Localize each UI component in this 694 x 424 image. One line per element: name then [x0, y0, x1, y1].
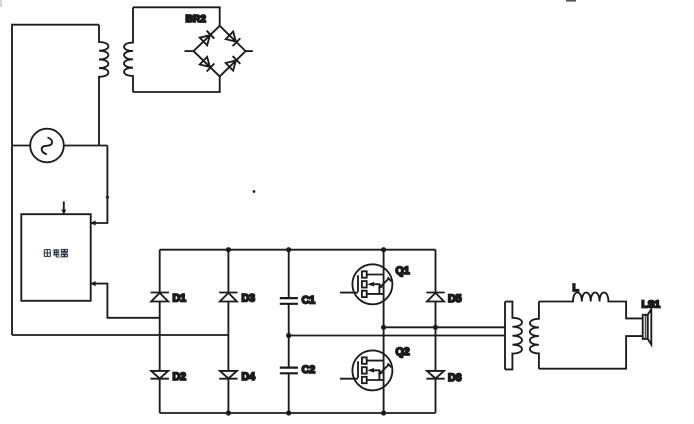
wire AC source right terminal — [64, 145, 108, 147]
relay top stub wire — [63, 201, 65, 213]
BR2 diode bottom-left — [200, 57, 215, 72]
wire output loop bottom — [539, 336, 643, 369]
transformer T1 secondary winding — [124, 7, 133, 92]
arrow into relay pin 1 — [91, 220, 96, 225]
diode D4 — [219, 371, 237, 379]
label L — [573, 283, 579, 294]
node dot rail A at Q — [381, 325, 386, 330]
branch Q1/Q2 vertical wire — [383, 250, 385, 413]
svg-text:L: L — [573, 283, 579, 294]
svg-text:LS1: LS1 — [642, 300, 661, 311]
label Q2 — [396, 346, 410, 358]
wire BR2 loop top edge — [133, 7, 220, 26]
label relay (CJK glyph approximations) — [44, 249, 67, 257]
arrow into relay pin 2 — [91, 281, 96, 286]
diode D1 — [151, 293, 169, 302]
svg-text:C1: C1 — [302, 295, 316, 307]
BR2 diode top-right — [226, 31, 241, 46]
wire rail B left segment — [12, 334, 228, 336]
node dot bottom rail at Q2 — [381, 410, 386, 415]
BR2 diode bottom-right — [226, 56, 241, 71]
relay K1 box — [21, 214, 90, 301]
label D6 — [448, 372, 462, 384]
transformer T2 primary bar and winding — [505, 302, 522, 370]
top left corner artifact — [0, 0, 2, 7]
label LS1 — [642, 300, 661, 311]
MOSFET Q1 — [340, 264, 392, 304]
label D1 — [173, 292, 187, 304]
wire ladder bottom rail — [160, 412, 436, 414]
node dot top rail at D3 — [226, 247, 231, 252]
label C2 — [302, 364, 316, 376]
label D3 — [242, 292, 256, 304]
BR2 right stub — [246, 50, 253, 52]
label Q1 — [396, 265, 410, 277]
svg-text:D3: D3 — [242, 292, 256, 304]
diode D6 — [426, 371, 444, 379]
diode D3 — [219, 293, 237, 302]
wire BR2 loop bottom edge — [133, 76, 220, 92]
wire top left loop — [12, 25, 99, 335]
label C1 — [302, 295, 316, 307]
wire rail B right segment — [289, 335, 505, 337]
label D2 — [173, 371, 187, 383]
branch C1/C2 vertical wire — [288, 250, 290, 413]
svg-text:Q2: Q2 — [396, 346, 410, 358]
branch D3/D4 vertical wire — [227, 250, 229, 413]
label D4 — [242, 371, 256, 383]
svg-text:D5: D5 — [448, 293, 462, 305]
branch D1/D2 vertical wire — [159, 250, 161, 413]
branch D5/D6 vertical wire — [435, 250, 437, 413]
AC source V1 — [30, 129, 64, 163]
diode D2 — [151, 371, 169, 379]
top edge screenshot artifact — [566, 0, 576, 2]
speaker LS1 — [643, 309, 652, 344]
svg-text:D1: D1 — [173, 292, 187, 304]
wire rail A — [384, 326, 505, 328]
label D5 — [448, 293, 462, 305]
transformer T2 secondary winding — [530, 302, 539, 369]
BR2 diode top-left — [200, 31, 215, 46]
svg-text:D4: D4 — [242, 371, 256, 383]
MOSFET Q2 — [340, 350, 392, 390]
transformer T1 primary winding — [99, 25, 108, 146]
node dot bottom rail at D4 — [226, 410, 231, 415]
svg-text:C2: C2 — [302, 364, 316, 376]
svg-text:D2: D2 — [173, 371, 187, 383]
svg-text:BR2: BR2 — [186, 14, 207, 25]
wire AC to relay vertical — [91, 146, 108, 224]
wire ladder top rail — [160, 249, 436, 251]
capacitor C2 — [280, 368, 298, 374]
node dot rail A at D5 — [433, 325, 438, 330]
stray dot artifact — [253, 190, 256, 193]
diode D5 — [426, 293, 444, 302]
bridge rectifier BR2 diamond — [194, 26, 246, 77]
wire output loop top with inductor L — [539, 293, 643, 319]
wire AC source left terminal — [12, 145, 31, 147]
arrow into relay top — [61, 210, 66, 215]
capacitor C1 — [280, 298, 298, 304]
node dot bottom rail at C2 — [286, 410, 291, 415]
label BR2 — [186, 14, 207, 25]
svg-text:Q1: Q1 — [396, 265, 410, 277]
node dot top rail at Q1 — [381, 247, 386, 252]
BR2 left stub — [185, 50, 194, 52]
arrow on wire at node (107,198) — [105, 196, 109, 200]
wire relay pin 2 to ladder — [91, 284, 160, 318]
node dot rail B at C — [286, 333, 291, 338]
svg-text:D6: D6 — [448, 372, 462, 384]
node dot top rail at C1 — [286, 247, 291, 252]
